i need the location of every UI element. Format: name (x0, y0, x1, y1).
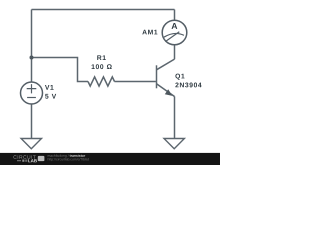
text ammeter A glyph (172, 23, 178, 29)
transistor Q1 base bar (156, 65, 158, 88)
wire top rail (32, 9, 175, 11)
footer bar (0, 153, 220, 165)
text logo LAB (28, 159, 37, 162)
text value 5V (45, 94, 56, 99)
voltage source V1 minus sign (27, 97, 36, 99)
voltage source V1 plus sign (27, 84, 37, 93)
transistor Q1 emitter arrow (165, 89, 173, 96)
text label AM1 (142, 30, 157, 35)
wire V1 bottom to ground (31, 104, 33, 139)
text value 100ohm (92, 64, 112, 69)
text footer title (70, 154, 86, 156)
transistor Q1 collector (157, 59, 175, 70)
ground below V1 (21, 139, 41, 149)
text footer author (48, 154, 69, 157)
ground below Q1 (164, 139, 184, 149)
ammeter AM1 scale arc (164, 33, 184, 37)
wire AM1 bottom to Q1 collector (174, 45, 176, 60)
text logo CIRCUIT (13, 155, 35, 159)
wire branch to R1 (32, 58, 89, 82)
wire left rail (31, 10, 33, 83)
wire AM1 top (174, 10, 176, 21)
footer logo box (38, 156, 45, 161)
voltage source V1 body (21, 82, 43, 104)
wire Q1 emitter to ground (174, 96, 176, 139)
text label R1 (97, 55, 106, 60)
node junction dot (30, 56, 34, 60)
ammeter AM1 body (162, 20, 187, 45)
text label V1 (45, 85, 54, 90)
wire R1 right lead to Q1 base (114, 81, 155, 83)
ammeter AM1 needle (165, 32, 179, 42)
text footer url (48, 158, 89, 161)
footer CircuitLab logo dashes (17, 159, 21, 162)
resistor R1 (88, 77, 114, 86)
text value 2N3904 (175, 83, 201, 88)
text label Q1 (175, 74, 184, 80)
transistor Q1 emitter (157, 84, 175, 97)
